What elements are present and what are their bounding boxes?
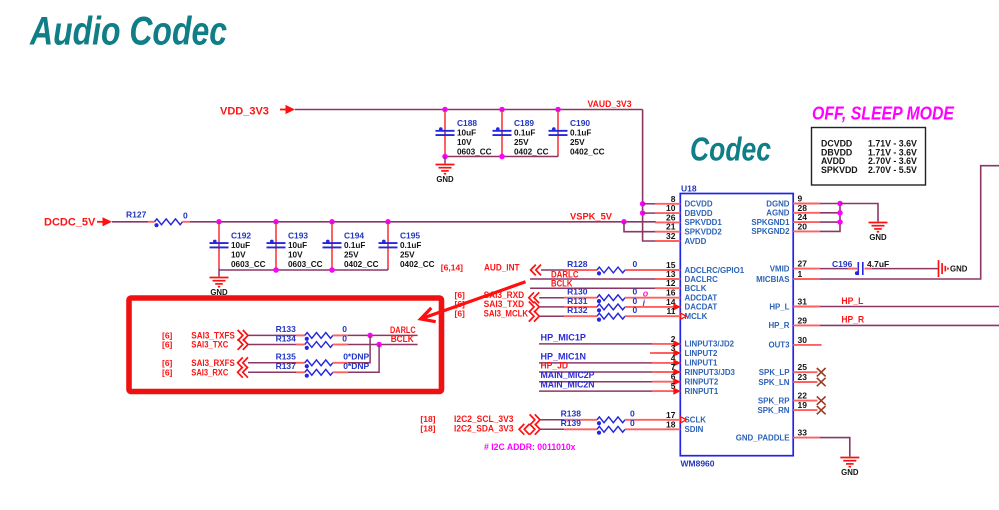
svg-text:11: 11	[667, 306, 676, 316]
wire pin8 to riser	[643, 203, 655, 205]
svg-text:DCVDD: DCVDD	[685, 200, 713, 209]
svg-text:[6]: [6]	[162, 368, 173, 378]
wire VAUD_3V3 drop	[643, 110, 656, 242]
wire MICBIAS off right	[820, 166, 999, 279]
svg-text:ADCDAT: ADCDAT	[685, 294, 718, 303]
svg-text:GND: GND	[950, 264, 968, 273]
svg-text:10uF: 10uF	[231, 241, 250, 250]
svg-text:SAI3_RXFS: SAI3_RXFS	[191, 358, 235, 368]
off-page connector SAI3_RXFS	[243, 357, 248, 368]
svg-text:0*DNP: 0*DNP	[343, 361, 369, 371]
svg-text:0: 0	[630, 409, 635, 419]
resistor R130	[539, 297, 564, 299]
svg-text:17: 17	[666, 410, 676, 420]
svg-text:DACDAT: DACDAT	[685, 303, 718, 312]
junction rail C194	[329, 219, 335, 225]
svg-text:VSPK_5V: VSPK_5V	[570, 211, 612, 221]
pin 23 SPK_LN	[793, 381, 817, 383]
junction AGND 28	[837, 210, 843, 216]
svg-text:SDIN: SDIN	[685, 425, 704, 434]
svg-text:SCLK: SCLK	[685, 416, 707, 425]
svg-text:VDD_3V3: VDD_3V3	[220, 106, 269, 118]
ground paddle	[840, 457, 859, 459]
svg-text:C190: C190	[570, 118, 590, 128]
pin 6 RINPUT2	[655, 381, 680, 383]
svg-text:HP_R: HP_R	[841, 315, 864, 325]
svg-text:DGND: DGND	[766, 199, 790, 208]
svg-text:RINPUT3/JD3: RINPUT3/JD3	[685, 368, 736, 377]
svg-text:[6,14]: [6,14]	[441, 262, 463, 272]
junction bottom rail C189	[499, 154, 505, 160]
wire to chip ground	[840, 204, 878, 222]
junction rail C192	[216, 219, 222, 225]
svg-text:C194: C194	[344, 230, 364, 240]
svg-text:MAIN_MIC2N: MAIN_MIC2N	[541, 380, 595, 390]
svg-text:MCLK: MCLK	[685, 312, 708, 321]
junction top rail C188	[442, 107, 448, 113]
svg-text:SAI3_RXC: SAI3_RXC	[191, 368, 228, 378]
svg-text:0.1uF: 0.1uF	[344, 241, 365, 250]
pin 2 LINPUT3/JD2	[655, 343, 680, 345]
svg-text:C196: C196	[832, 259, 853, 269]
resistor R139	[540, 428, 564, 430]
svg-text:C192: C192	[231, 230, 251, 240]
svg-text:R127: R127	[126, 210, 147, 220]
pin 31 HP_L	[793, 306, 820, 308]
wire HP_R	[820, 324, 999, 326]
svg-text:[6]: [6]	[455, 308, 466, 318]
pin 26 SPKVDD1	[655, 221, 680, 223]
resistor R134	[248, 344, 296, 346]
pin 1 MICBIAS	[793, 278, 820, 280]
svg-text:[6]: [6]	[162, 340, 173, 350]
wire SPKVDD2 branch	[624, 222, 656, 232]
svg-text:25V: 25V	[400, 250, 415, 259]
svg-text:10uF: 10uF	[457, 129, 476, 138]
svg-text:10V: 10V	[231, 250, 246, 259]
wire BCLK box	[348, 344, 418, 346]
svg-text:BCLK: BCLK	[391, 334, 414, 344]
svg-text:o: o	[643, 288, 649, 298]
svg-text:I2C2_SDA_3V3: I2C2_SDA_3V3	[454, 423, 514, 433]
pin 25 SPK_LP	[793, 371, 817, 373]
svg-text:SPKVDD: SPKVDD	[821, 165, 858, 175]
svg-text:R128: R128	[567, 259, 588, 269]
annotation arrow	[424, 282, 526, 318]
annotation highlight box	[129, 298, 442, 392]
off-page connector AUD_INT	[536, 265, 541, 276]
pin 10 DBVDD	[655, 212, 680, 214]
svg-text:C193: C193	[288, 230, 308, 240]
pin 19 SPK_RN	[793, 409, 817, 411]
svg-text:SPK_RN: SPK_RN	[757, 406, 789, 415]
svg-text:HP_L: HP_L	[841, 296, 863, 306]
svg-text:0: 0	[633, 259, 638, 269]
junction SPKGND1 24	[837, 219, 843, 225]
svg-text:RINPUT1: RINPUT1	[685, 387, 719, 396]
svg-text:0.1uF: 0.1uF	[514, 129, 535, 138]
junction top rail C189	[499, 107, 505, 113]
svg-text:22: 22	[798, 391, 808, 401]
svg-text:SAI3_MCLK: SAI3_MCLK	[484, 308, 529, 318]
pin 20 SPKGND2	[793, 230, 820, 232]
ground VMID sideways	[938, 260, 940, 277]
capacitor C189	[501, 110, 503, 157]
wire VSPK_5V rail	[190, 221, 656, 223]
pin 4 LINPUT1	[655, 362, 680, 364]
svg-text:25V: 25V	[514, 138, 529, 147]
wire DGND group riser	[820, 204, 840, 232]
svg-text:0.1uF: 0.1uF	[400, 241, 421, 250]
wire GND stub C192	[218, 270, 220, 277]
ground top bank	[436, 164, 455, 166]
voltage range table	[812, 128, 926, 186]
pin 8 DCVDD	[655, 203, 680, 205]
svg-text:0: 0	[630, 418, 635, 428]
svg-text:HP_L: HP_L	[769, 302, 789, 311]
svg-text:SPKGND2: SPKGND2	[751, 227, 790, 236]
svg-text:10V: 10V	[288, 250, 303, 259]
resistor R138	[540, 419, 564, 421]
svg-text:27: 27	[798, 259, 808, 269]
junction BCLK-R137	[376, 342, 382, 348]
svg-text:DACLRC: DACLRC	[685, 275, 719, 284]
capacitor C193	[275, 222, 277, 270]
svg-text:1: 1	[798, 269, 803, 279]
svg-text:R138: R138	[561, 409, 582, 419]
svg-text:SPKVDD1: SPKVDD1	[685, 218, 723, 227]
pin 21 SPKVDD2	[655, 231, 680, 233]
pin 24 SPKGND1	[793, 221, 820, 223]
svg-text:32: 32	[666, 231, 676, 241]
capacitor C195	[387, 222, 389, 270]
wire DCDC rail left	[112, 221, 148, 223]
svg-text:HP_MIC1P: HP_MIC1P	[541, 332, 587, 342]
svg-text:R137: R137	[276, 361, 297, 371]
svg-text:[18]: [18]	[420, 423, 435, 433]
svg-text:R139: R139	[561, 418, 582, 428]
svg-text:SPK_RP: SPK_RP	[758, 396, 790, 405]
svg-text:12: 12	[666, 278, 676, 288]
svg-text:4.7uF: 4.7uF	[867, 259, 889, 269]
svg-text:HP_R: HP_R	[768, 321, 789, 330]
svg-text:33: 33	[798, 428, 808, 438]
svg-text:DBVDD: DBVDD	[685, 209, 713, 218]
svg-text:ADCLRC/GPIO1: ADCLRC/GPIO1	[685, 266, 745, 275]
svg-text:OUT3: OUT3	[768, 341, 790, 350]
svg-text:VMID: VMID	[770, 264, 790, 273]
junction top rail C190	[555, 107, 561, 113]
svg-text:25: 25	[798, 362, 808, 372]
junction DGND 9	[837, 201, 843, 207]
pin 15 ADCLRC/GPIO1	[655, 269, 680, 271]
resistor R137	[248, 371, 296, 373]
svg-text:0402_CC: 0402_CC	[570, 148, 605, 157]
svg-text:19: 19	[798, 400, 808, 410]
svg-text:VAUD_3V3: VAUD_3V3	[588, 99, 632, 109]
wire AVDD pins 8-10 riser dots	[640, 201, 646, 207]
svg-text:SPKVDD2: SPKVDD2	[685, 228, 723, 237]
pin 22 SPK_RP	[793, 400, 817, 402]
svg-text:HP_JD: HP_JD	[541, 360, 569, 370]
wire DARLC	[530, 278, 655, 280]
pin 3 LINPUT2	[655, 352, 680, 354]
junction bottom C193	[273, 267, 279, 273]
svg-text:GND: GND	[841, 468, 859, 477]
svg-text:GND: GND	[869, 233, 887, 242]
svg-text:0603_CC: 0603_CC	[457, 148, 492, 157]
svg-text:SAI3_TXC: SAI3_TXC	[191, 340, 228, 350]
resistor R132	[539, 315, 564, 317]
svg-text:Codec: Codec	[690, 131, 771, 168]
svg-text:SPK_LP: SPK_LP	[759, 368, 790, 377]
svg-text:AVDD: AVDD	[685, 237, 707, 246]
svg-text:GND_PADDLE: GND_PADDLE	[736, 433, 790, 442]
resistor R131	[539, 306, 564, 308]
svg-text:LINPUT3/JD2: LINPUT3/JD2	[685, 340, 735, 349]
off-page connector SAI3_MCLK	[534, 311, 539, 322]
svg-text:SPK_LN: SPK_LN	[758, 378, 789, 387]
svg-text:I2C2_SCL_3V3: I2C2_SCL_3V3	[454, 414, 514, 424]
junction rail C193	[273, 219, 279, 225]
svg-text:MICBIAS: MICBIAS	[756, 275, 789, 284]
wire VDD_3V3 rail	[295, 109, 643, 111]
wire cap bank bottom rail	[445, 156, 558, 158]
svg-text:Audio Codec: Audio Codec	[29, 10, 227, 54]
svg-text:0603_CC: 0603_CC	[231, 260, 266, 269]
wire R135 riser	[348, 335, 370, 362]
svg-text:0402_CC: 0402_CC	[400, 260, 435, 269]
resistor R128	[541, 269, 564, 271]
pin 13 DACLRC	[655, 278, 680, 280]
resistor R133	[248, 334, 296, 336]
svg-text:0.1uF: 0.1uF	[570, 129, 591, 138]
wire BCLK	[530, 287, 655, 289]
svg-text:LINPUT2: LINPUT2	[685, 349, 718, 358]
pin 32 AVDD	[655, 240, 680, 242]
svg-text:0: 0	[633, 305, 638, 315]
pin 5 RINPUT1	[655, 390, 680, 392]
svg-text:OFF, SLEEP MODE: OFF, SLEEP MODE	[812, 104, 955, 124]
junction bottom rail C188	[442, 154, 448, 160]
svg-text:10V: 10V	[457, 138, 472, 147]
junction DARLC-R135	[367, 333, 373, 339]
svg-text:0: 0	[183, 211, 188, 221]
wire GND stub C188	[444, 157, 446, 164]
off-page connector SAI3_TXC	[243, 339, 248, 350]
ground lower bank	[210, 277, 229, 279]
svg-text:BCLK: BCLK	[685, 284, 707, 293]
wire HP_L	[820, 306, 999, 308]
off-page connector SAI3_RXD	[534, 292, 539, 303]
svg-text:R134: R134	[276, 333, 297, 343]
pin 33 GND_PADDLE	[793, 437, 820, 439]
capacitor C188	[444, 110, 446, 157]
svg-text:C189: C189	[514, 118, 534, 128]
svg-text:0402_CC: 0402_CC	[344, 260, 379, 269]
capacitor C192	[218, 222, 220, 270]
pin 12 BCLK	[655, 287, 680, 289]
wire R137 riser	[348, 345, 379, 373]
junction rail C195	[385, 219, 391, 225]
pin 28 AGND	[793, 212, 820, 214]
ground chip right	[869, 222, 888, 224]
pin 14 DACDAT	[655, 306, 680, 308]
svg-text:# I2C ADDR: 0011010x: # I2C ADDR: 0011010x	[484, 442, 576, 452]
svg-text:[18]: [18]	[420, 414, 435, 424]
junction VSPK split	[621, 219, 627, 225]
svg-text:30: 30	[798, 335, 808, 345]
pin 16 ADCDAT	[655, 297, 680, 299]
svg-text:0*DNP: 0*DNP	[343, 352, 369, 362]
pin 7 RINPUT3/JD3	[655, 371, 680, 373]
svg-text:25V: 25V	[570, 138, 585, 147]
wire DARLC box	[348, 334, 418, 336]
svg-text:R132: R132	[567, 305, 588, 315]
capacitor C190	[557, 110, 559, 157]
svg-text:SPKGND1: SPKGND1	[751, 218, 790, 227]
off-page connector I2C2_SCL	[535, 414, 540, 425]
pin 30 OUT3	[793, 344, 821, 346]
off-page connector I2C2_SDA	[524, 424, 529, 435]
capacitor C194	[331, 222, 333, 270]
wire GND_PADDLE	[820, 438, 850, 457]
op-amp U18 body	[680, 194, 793, 456]
svg-text:29: 29	[798, 315, 808, 325]
svg-text:C188: C188	[457, 118, 477, 128]
svg-text:LINPUT1: LINPUT1	[685, 359, 718, 368]
svg-text:10uF: 10uF	[288, 241, 307, 250]
pin 17 SCLK	[655, 419, 680, 421]
wire pin10 to riser	[643, 212, 655, 214]
svg-text:23: 23	[798, 372, 808, 382]
resistor R135	[248, 362, 296, 364]
pin 11 MCLK	[655, 315, 680, 317]
svg-text:2.70V - 5.5V: 2.70V - 5.5V	[868, 165, 917, 175]
svg-text:25V: 25V	[344, 250, 359, 259]
svg-text:WM8960: WM8960	[681, 459, 715, 469]
svg-text:AGND: AGND	[766, 209, 790, 218]
svg-text:AUD_INT: AUD_INT	[484, 262, 520, 272]
svg-text:C195: C195	[400, 230, 420, 240]
svg-text:0402_CC: 0402_CC	[514, 148, 549, 157]
off-page connector SAI3_TXFS	[243, 330, 248, 341]
pin 9 DGND	[793, 203, 820, 205]
off-page connector SAI3_RXC	[243, 367, 248, 378]
svg-text:[6]: [6]	[162, 358, 173, 368]
svg-text:DCDC_5V: DCDC_5V	[44, 217, 96, 229]
pin 18 SDIN	[655, 428, 680, 430]
pin 27 VMID	[793, 268, 820, 270]
svg-text:0: 0	[342, 333, 347, 343]
off-page connector SAI3_TXD	[534, 302, 539, 313]
svg-text:31: 31	[798, 297, 808, 307]
svg-text:R135: R135	[276, 352, 297, 362]
wire LINPUT2 stub	[650, 352, 655, 354]
wire VMID to ground	[872, 268, 938, 270]
svg-text:20: 20	[798, 221, 808, 231]
wire lower bank bottom rail	[219, 269, 388, 271]
svg-text:GND: GND	[436, 175, 454, 184]
svg-text:18: 18	[666, 419, 676, 429]
svg-text:U18: U18	[681, 184, 697, 194]
svg-text:RINPUT2: RINPUT2	[685, 378, 719, 387]
pin 29 HP_R	[793, 324, 820, 326]
junction bottom C194	[329, 267, 335, 273]
svg-text:0603_CC: 0603_CC	[288, 260, 323, 269]
